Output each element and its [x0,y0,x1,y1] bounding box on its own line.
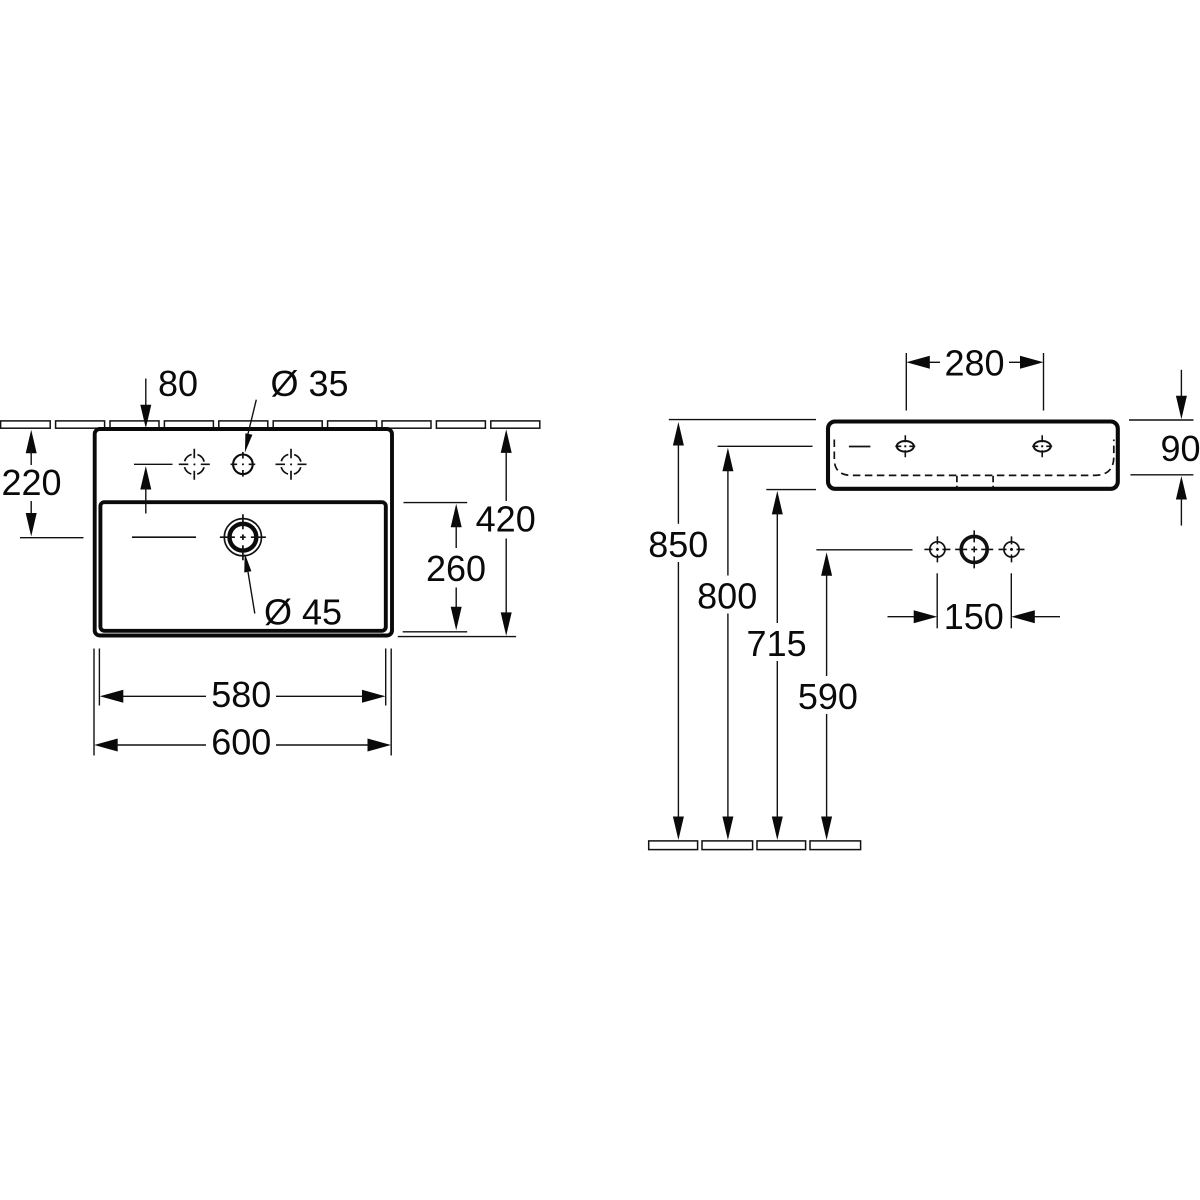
svg-text:590: 590 [798,676,858,717]
svg-text:580: 580 [211,674,271,715]
svg-text:850: 850 [648,524,708,565]
svg-text:220: 220 [1,462,61,503]
svg-text:420: 420 [476,499,536,540]
right faucet hole (side view) [1034,441,1051,452]
floor tile hatching (side view) [649,841,698,850]
centre mixer hole (bottom detail) [961,536,987,562]
water level mark (side view) [849,446,871,448]
water level mark inside bowl (top view) [132,536,196,538]
left faucet hole (dashed, optional) [184,454,204,474]
left faucet hole (side view) [897,441,914,452]
basin bowl inner rectangle 580 wide (top view) [100,502,385,631]
basin front outline (side view) [828,422,1118,489]
svg-text:715: 715 [747,623,807,664]
dashed bowl interior and drain recess (side view) [834,440,1114,476]
svg-text:Ø 35: Ø 35 [271,363,349,404]
svg-text:80: 80 [158,363,198,404]
svg-text:Ø 45: Ø 45 [264,592,342,633]
svg-text:150: 150 [944,596,1004,637]
svg-text:280: 280 [944,343,1004,384]
centre faucet hole Ø35 (top view) [233,455,253,475]
basin outer rim rectangle 600x420 (top view) [95,429,392,636]
drain hole Ø45 with centre mark (top view) [224,519,261,556]
svg-text:800: 800 [697,576,757,617]
left mixer hole (bottom detail) [930,542,945,557]
right mixer hole (bottom detail) [1004,542,1019,557]
svg-text:260: 260 [426,548,486,589]
svg-text:90: 90 [1160,428,1200,469]
right faucet hole (dashed, optional) [281,454,301,474]
wall tile hatching above basin (top view) [1,421,51,428]
svg-text:600: 600 [211,722,271,763]
